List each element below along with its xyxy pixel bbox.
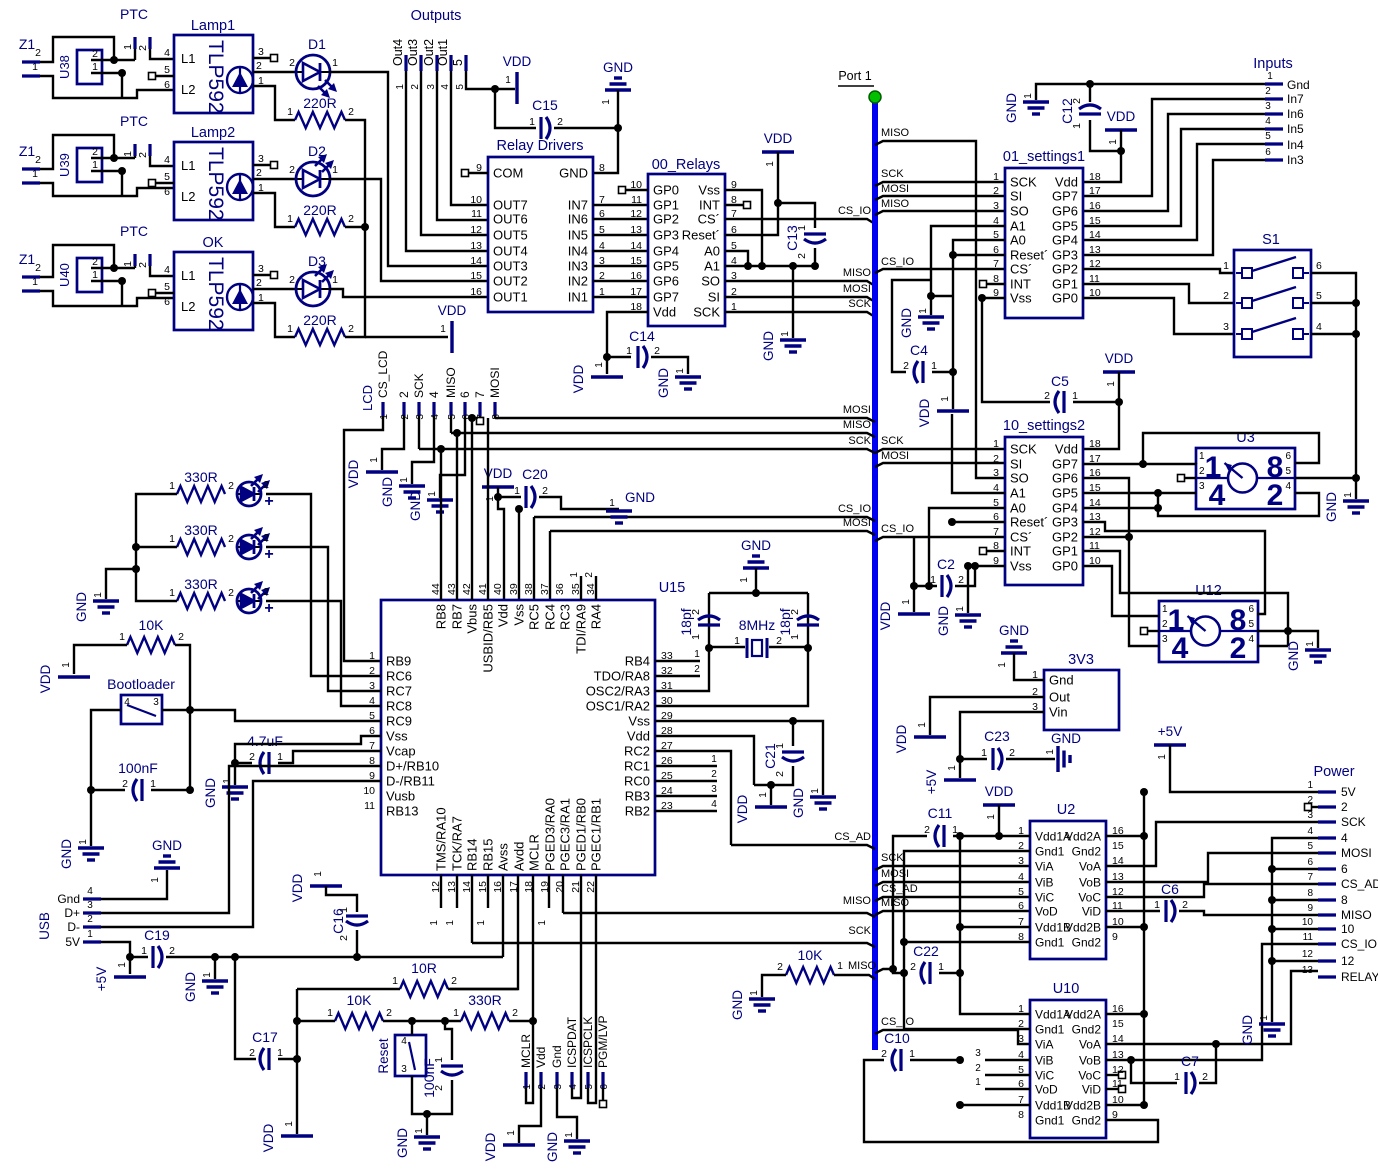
wire xyxy=(40,37,114,62)
svg-text:GND: GND xyxy=(603,60,633,75)
svg-text:VDD: VDD xyxy=(38,665,53,694)
svg-text:L2: L2 xyxy=(181,82,195,97)
wire xyxy=(494,416,496,418)
svg-text:12: 12 xyxy=(1302,949,1314,960)
wire xyxy=(450,416,452,433)
svg-text:A0: A0 xyxy=(1010,501,1026,516)
switch S1 xyxy=(1234,250,1311,357)
power VDD vdd-lcd xyxy=(366,470,398,473)
svg-text:Lamp2: Lamp2 xyxy=(191,125,235,141)
wire xyxy=(150,49,174,59)
svg-text:2: 2 xyxy=(35,47,41,59)
stub U10 3 xyxy=(985,1059,1030,1061)
wire xyxy=(913,537,915,586)
svg-text:GND: GND xyxy=(559,166,588,181)
svg-text:CS_IO: CS_IO xyxy=(881,256,914,268)
wire xyxy=(329,179,488,281)
resistor 330R R330R2 xyxy=(461,1013,509,1029)
ground gnd-3v3 xyxy=(1010,639,1018,642)
svg-text:GP4: GP4 xyxy=(1052,501,1078,516)
svg-text:ViC: ViC xyxy=(1035,1069,1054,1083)
svg-text:U40: U40 xyxy=(57,263,72,287)
svg-text:VoB: VoB xyxy=(1079,876,1101,890)
wire xyxy=(91,280,122,282)
svg-text:GND: GND xyxy=(408,491,423,521)
svg-text:GP1: GP1 xyxy=(1052,277,1078,292)
junction xyxy=(211,953,219,961)
junction xyxy=(1352,474,1360,482)
pin3 open xyxy=(271,272,278,279)
wire xyxy=(40,245,114,277)
resistor 10K R10K2 xyxy=(335,1013,383,1029)
wire xyxy=(960,757,987,759)
junction xyxy=(408,1017,416,1025)
svg-text:2: 2 xyxy=(958,574,964,586)
LED LED1 xyxy=(237,493,261,495)
svg-text:2: 2 xyxy=(87,914,93,925)
svg-text:1: 1 xyxy=(1106,381,1117,387)
capacitor C16 xyxy=(346,914,368,917)
svg-text:RB15: RB15 xyxy=(481,838,496,871)
svg-text:IN7: IN7 xyxy=(568,198,588,213)
power VDD vdd-c21 xyxy=(755,805,787,808)
svg-text:2: 2 xyxy=(1162,619,1168,630)
svg-text:16: 16 xyxy=(470,286,482,298)
wire xyxy=(40,76,174,98)
svg-text:MCLR: MCLR xyxy=(527,834,542,871)
stub bottom pin xyxy=(487,875,489,908)
svg-text:GND: GND xyxy=(1286,641,1301,671)
svg-text:5: 5 xyxy=(1248,619,1254,630)
svg-text:2: 2 xyxy=(289,164,295,176)
svg-text:A0: A0 xyxy=(1010,233,1026,248)
svg-text:2: 2 xyxy=(1199,466,1205,477)
svg-text:1: 1 xyxy=(287,106,293,118)
junction xyxy=(1127,1056,1135,1064)
svg-text:9: 9 xyxy=(1112,931,1118,943)
svg-text:MISO: MISO xyxy=(881,897,910,909)
svg-text:5: 5 xyxy=(1265,131,1271,142)
svg-text:SCK: SCK xyxy=(881,435,904,447)
svg-text:GP5: GP5 xyxy=(1052,219,1078,234)
svg-text:2: 2 xyxy=(35,262,41,274)
svg-text:SCK: SCK xyxy=(1010,175,1037,190)
wire xyxy=(892,280,931,372)
svg-text:CS_IO: CS_IO xyxy=(838,503,871,515)
wire xyxy=(930,697,1044,735)
svg-text:1: 1 xyxy=(150,778,156,790)
svg-text:1: 1 xyxy=(169,533,175,545)
svg-text:U38: U38 xyxy=(57,55,72,79)
wire xyxy=(412,416,434,484)
svg-text:2: 2 xyxy=(654,345,660,357)
wire xyxy=(101,870,167,899)
wire xyxy=(329,72,488,266)
junction xyxy=(927,292,935,300)
wire xyxy=(1036,84,1265,100)
svg-text:1: 1 xyxy=(675,368,686,374)
svg-text:GP7: GP7 xyxy=(1052,189,1078,204)
wire to bus SCK xyxy=(725,312,875,317)
wire xyxy=(365,336,448,338)
svg-text:SCK: SCK xyxy=(848,925,871,937)
junction xyxy=(126,953,134,961)
wire xyxy=(1170,745,1318,792)
svg-text:1: 1 xyxy=(810,788,821,794)
wire xyxy=(326,886,357,912)
wire xyxy=(427,1080,452,1114)
wire xyxy=(91,157,135,159)
power VDD vdd-3v3 xyxy=(914,735,946,738)
svg-text:C13: C13 xyxy=(784,225,800,251)
wire xyxy=(91,72,122,74)
svg-text:1: 1 xyxy=(529,116,535,128)
ground gnd-c20 xyxy=(606,509,632,512)
wire xyxy=(1106,1104,1144,1106)
svg-text:8MHz: 8MHz xyxy=(739,617,776,633)
svg-text:GND: GND xyxy=(999,623,1029,638)
wire xyxy=(549,531,551,600)
wire xyxy=(509,1020,533,1022)
svg-text:Vdd2A: Vdd2A xyxy=(1065,830,1101,844)
svg-text:GP3: GP3 xyxy=(653,228,679,243)
svg-text:OUT3: OUT3 xyxy=(493,259,528,274)
svg-text:OUT5: OUT5 xyxy=(493,228,528,243)
bus tap wire xyxy=(875,911,1030,915)
svg-text:+: + xyxy=(264,600,273,617)
svg-text:D+: D+ xyxy=(64,906,80,920)
svg-text:1: 1 xyxy=(332,57,338,69)
svg-text:GND: GND xyxy=(183,972,198,1002)
power VDD vdd-icsp xyxy=(503,1143,535,1146)
capacitor C10 xyxy=(899,1049,902,1071)
wire xyxy=(1106,910,1160,912)
svg-text:U12: U12 xyxy=(1195,583,1222,599)
svg-text:4: 4 xyxy=(1307,826,1313,837)
wire GP6/GP2 to U12 pin3 xyxy=(1083,478,1159,646)
svg-text:Vdd: Vdd xyxy=(653,305,676,320)
svg-text:C22: C22 xyxy=(913,943,939,959)
svg-text:1: 1 xyxy=(440,324,446,335)
power +5V +5v-rail xyxy=(1154,743,1186,746)
svg-text:C21: C21 xyxy=(762,743,778,769)
wire xyxy=(440,416,465,498)
junction xyxy=(925,582,933,590)
junction xyxy=(110,56,118,64)
svg-text:VDD: VDD xyxy=(503,54,532,69)
wire xyxy=(162,710,381,721)
svg-text:2: 2 xyxy=(92,146,98,158)
svg-text:100nF: 100nF xyxy=(421,1058,437,1098)
svg-text:VDD: VDD xyxy=(438,303,467,318)
svg-text:VoD: VoD xyxy=(1035,905,1058,919)
wire xyxy=(297,1020,335,1022)
wire xyxy=(606,357,608,374)
svg-text:Gnd1: Gnd1 xyxy=(1035,845,1065,859)
wire xyxy=(914,586,937,612)
ground gnd-xtal xyxy=(752,554,760,557)
svg-text:1: 1 xyxy=(594,362,605,368)
svg-text:15: 15 xyxy=(630,255,642,267)
svg-text:1: 1 xyxy=(601,99,612,105)
wire xyxy=(90,790,92,846)
switch Bootloader xyxy=(121,695,162,724)
svg-text:MISO: MISO xyxy=(843,419,872,431)
svg-text:2: 2 xyxy=(451,975,457,987)
svg-text:RC7: RC7 xyxy=(386,684,412,699)
svg-text:4: 4 xyxy=(1285,481,1291,492)
svg-text:VDD: VDD xyxy=(290,874,305,903)
svg-text:C12: C12 xyxy=(1059,98,1075,124)
svg-text:1: 1 xyxy=(1343,492,1354,498)
svg-text:Vdd: Vdd xyxy=(496,604,511,627)
svg-text:5: 5 xyxy=(584,1084,595,1090)
svg-text:MOSI: MOSI xyxy=(843,517,871,529)
capacitor 18pf-2 xyxy=(797,623,819,626)
svg-text:4: 4 xyxy=(1265,116,1271,127)
svg-text:Outputs: Outputs xyxy=(411,8,462,24)
svg-text:3V3: 3V3 xyxy=(1068,652,1094,668)
svg-text:Vbus: Vbus xyxy=(465,604,480,634)
svg-text:8: 8 xyxy=(1341,893,1348,907)
wire xyxy=(769,646,808,648)
wire xyxy=(960,1104,1030,1106)
svg-text:330R: 330R xyxy=(184,522,217,538)
svg-text:A0: A0 xyxy=(704,244,720,259)
svg-text:IN2: IN2 xyxy=(568,274,588,289)
wire xyxy=(1106,971,1318,1044)
wire xyxy=(539,497,619,509)
junction xyxy=(293,1017,301,1025)
svg-text:OUT1: OUT1 xyxy=(493,290,528,305)
svg-text:2: 2 xyxy=(993,185,999,197)
stub RC1/RC0/RB3/RB2 4 xyxy=(655,810,717,812)
svg-text:1: 1 xyxy=(758,792,769,798)
svg-text:2: 2 xyxy=(397,391,411,398)
svg-text:1: 1 xyxy=(938,961,944,973)
resistor 330R R333 xyxy=(177,593,225,609)
svg-text:In3: In3 xyxy=(1287,153,1304,167)
junction xyxy=(705,644,713,652)
svg-text:GP4: GP4 xyxy=(1052,233,1078,248)
wire xyxy=(471,418,473,600)
pin INT open xyxy=(744,202,751,209)
wire xyxy=(121,281,123,306)
junction xyxy=(491,85,499,93)
svg-text:Vcap: Vcap xyxy=(386,744,416,759)
svg-text:GP7: GP7 xyxy=(653,290,679,305)
svg-text:10: 10 xyxy=(470,194,482,206)
IC U2 xyxy=(1030,821,1106,959)
svg-text:Gnd2: Gnd2 xyxy=(1072,1023,1102,1037)
wire xyxy=(725,265,815,267)
power VDD vdd-s1 xyxy=(937,409,969,412)
svg-text:15: 15 xyxy=(1089,215,1101,227)
bus tap wire xyxy=(472,943,875,947)
svg-text:Gnd: Gnd xyxy=(1049,673,1074,688)
wire xyxy=(253,193,295,227)
IC U15 xyxy=(381,600,655,875)
wire xyxy=(709,646,745,648)
svg-text:1: 1 xyxy=(1305,641,1316,647)
wire xyxy=(1083,130,1121,182)
svg-text:Out1: Out1 xyxy=(436,39,450,66)
svg-text:3: 3 xyxy=(1018,1033,1024,1045)
wire xyxy=(607,312,648,357)
wire xyxy=(1195,463,1197,464)
junction xyxy=(789,717,797,725)
wire xyxy=(960,712,1044,757)
svg-text:RC6: RC6 xyxy=(386,669,412,684)
svg-text:2: 2 xyxy=(338,935,350,941)
svg-text:2: 2 xyxy=(348,213,354,225)
svg-text:12: 12 xyxy=(470,224,482,236)
svg-text:Vss: Vss xyxy=(698,183,720,198)
svg-text:Out: Out xyxy=(1049,690,1070,705)
svg-text:9: 9 xyxy=(1307,903,1313,914)
junction xyxy=(1268,925,1276,933)
junction xyxy=(758,262,766,270)
resistor 220R R1 xyxy=(295,112,345,128)
svg-text:2: 2 xyxy=(263,532,269,544)
ground gnd-lcd2 xyxy=(427,500,453,512)
svg-text:PGEC1/RB1: PGEC1/RB1 xyxy=(589,798,604,871)
svg-text:3: 3 xyxy=(401,1064,407,1075)
svg-text:Vdd2A: Vdd2A xyxy=(1065,1008,1101,1022)
svg-text:2: 2 xyxy=(993,453,999,465)
wire GP1 to pin5 net xyxy=(1083,551,1288,646)
svg-text:5: 5 xyxy=(1018,886,1024,898)
junction xyxy=(995,832,1003,840)
svg-text:1: 1 xyxy=(993,171,999,183)
svg-text:3: 3 xyxy=(258,153,264,165)
svg-text:ViA: ViA xyxy=(1035,1038,1053,1052)
wire xyxy=(532,875,534,1021)
svg-text:15: 15 xyxy=(470,270,482,282)
svg-text:USB: USB xyxy=(37,912,52,940)
svg-text:Vss: Vss xyxy=(1010,291,1032,306)
svg-text:RB14: RB14 xyxy=(465,838,480,871)
svg-text:11: 11 xyxy=(631,194,642,206)
wire xyxy=(931,226,1005,315)
svg-text:1: 1 xyxy=(379,414,390,420)
svg-text:GP6: GP6 xyxy=(653,274,679,289)
svg-text:5: 5 xyxy=(1285,466,1291,477)
svg-text:1: 1 xyxy=(917,722,928,728)
wire xyxy=(296,989,298,1134)
svg-text:VoC: VoC xyxy=(1078,891,1101,905)
svg-text:ICSPCLK: ICSPCLK xyxy=(581,1017,595,1068)
wire xyxy=(1083,463,1196,465)
stub RB4/TDO 2 xyxy=(655,675,700,677)
svg-text:MISO: MISO xyxy=(843,895,872,907)
svg-text:VDD: VDD xyxy=(878,602,893,631)
svg-text:4: 4 xyxy=(1316,321,1322,333)
svg-text:D-: D- xyxy=(67,920,80,934)
svg-text:SO: SO xyxy=(701,274,720,289)
wire xyxy=(593,280,648,282)
junction xyxy=(889,965,897,973)
svg-text:Power: Power xyxy=(1313,764,1354,780)
pin U3-2 open xyxy=(1178,475,1185,482)
svg-text:GP6: GP6 xyxy=(1052,204,1078,219)
svg-text:GP2: GP2 xyxy=(1052,530,1078,545)
wire xyxy=(580,875,582,1052)
pin GP0 open xyxy=(619,187,626,194)
svg-text:1: 1 xyxy=(955,606,966,612)
wire xyxy=(1083,144,1265,240)
junction xyxy=(529,1017,537,1025)
svg-text:18: 18 xyxy=(1089,171,1101,183)
wire xyxy=(106,569,136,599)
svg-text:A1: A1 xyxy=(1010,486,1026,501)
svg-text:18: 18 xyxy=(1089,438,1101,450)
svg-text:1: 1 xyxy=(749,990,760,996)
svg-text:TLP592: TLP592 xyxy=(204,257,227,331)
svg-text:1: 1 xyxy=(369,650,375,662)
svg-text:Inputs: Inputs xyxy=(1253,56,1293,72)
svg-text:Gnd: Gnd xyxy=(1287,78,1310,92)
svg-text:2: 2 xyxy=(289,57,295,69)
svg-text:2: 2 xyxy=(410,84,421,90)
junction xyxy=(468,414,476,422)
wire xyxy=(266,601,381,706)
svg-text:2: 2 xyxy=(137,262,149,268)
svg-text:4: 4 xyxy=(87,886,93,897)
svg-text:10_settings2: 10_settings2 xyxy=(1003,418,1085,434)
capacitor 100nF2 xyxy=(441,1064,463,1067)
svg-text:SCK: SCK xyxy=(881,168,904,180)
IC 01_settings1 xyxy=(1005,168,1083,318)
wire xyxy=(725,152,778,235)
wire xyxy=(253,178,297,180)
svg-text:13: 13 xyxy=(470,240,482,252)
svg-text:1: 1 xyxy=(1154,899,1160,911)
bus tap wire xyxy=(875,897,1030,901)
capacitor C4 xyxy=(921,361,924,383)
svg-text:GP4: GP4 xyxy=(653,244,679,259)
svg-text:RB9: RB9 xyxy=(386,654,411,669)
stub RB4/TDO 1 xyxy=(655,660,700,662)
optocoupler U (block 3) OK xyxy=(174,252,253,330)
svg-text:D3: D3 xyxy=(308,253,326,269)
capacitor C14 xyxy=(636,346,639,368)
wire xyxy=(91,710,121,790)
thermistor U38 xyxy=(77,50,102,84)
svg-text:1: 1 xyxy=(332,274,338,286)
wire xyxy=(655,736,754,785)
wire xyxy=(1083,298,1234,334)
svg-text:2: 2 xyxy=(35,154,41,166)
ground gnd-leds xyxy=(93,601,119,613)
ground gnd-100nf xyxy=(78,848,104,860)
svg-text:Vin: Vin xyxy=(1049,705,1068,720)
wire xyxy=(952,414,1005,493)
wire xyxy=(939,972,960,974)
junction xyxy=(603,353,611,361)
svg-text:6: 6 xyxy=(1307,857,1313,868)
svg-text:ViB: ViB xyxy=(1035,1054,1053,1068)
svg-text:C7: C7 xyxy=(1181,1053,1199,1069)
wire xyxy=(121,73,123,98)
wire xyxy=(864,1060,1158,1142)
svg-text:+: + xyxy=(264,546,273,563)
junction xyxy=(1140,788,1148,796)
svg-text:MOSI: MOSI xyxy=(843,404,871,416)
svg-text:330R: 330R xyxy=(468,992,501,1008)
LED D1 xyxy=(296,71,330,73)
svg-text:RC5: RC5 xyxy=(527,604,542,630)
